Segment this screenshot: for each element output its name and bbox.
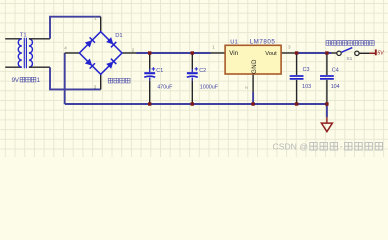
capacitor C2: [187, 53, 219, 104]
junction C4 top: [325, 51, 328, 54]
diode on bottom-left edge: [85, 58, 95, 68]
U1 pin 3 wire: [281, 52, 296, 54]
S1 lever: [341, 48, 352, 53]
C4 plates: [320, 76, 334, 79]
svg-text:3: 3: [94, 85, 97, 90]
C3 pin top: [296, 53, 298, 75]
svg-text:S1: S1: [346, 56, 352, 62]
wire node4 down: [64, 53, 66, 104]
bridge rectifier D1: [64, 16, 136, 90]
U1 body: [225, 45, 281, 74]
junction C3 top: [295, 51, 298, 54]
transformer T1: [5, 32, 50, 84]
capacitor C4: [320, 53, 340, 104]
ground stem red: [326, 117, 328, 123]
svg-text:D1: D1: [115, 33, 122, 39]
svg-text:LM7805: LM7805: [250, 38, 276, 45]
S1 left contact: [337, 51, 341, 55]
wire top rail U1 to switch: [296, 52, 332, 54]
bridge pin 4: [65, 52, 80, 54]
svg-text:4: 4: [64, 46, 67, 51]
U1 pin 2 wire: [252, 74, 254, 92]
T1 secondary winding: [29, 39, 33, 67]
C2 top plate: [187, 72, 198, 74]
T1 primary pin bottom: [5, 66, 22, 68]
C2 bottom plate: [187, 76, 198, 77]
T1 core: [24, 38, 26, 68]
C2 plus sign: [195, 67, 199, 71]
svg-text:T1: T1: [20, 32, 27, 38]
regulator U1 LM7805: [211, 38, 296, 104]
bridge diamond edges: [79, 32, 122, 75]
watermark CSDN: [273, 141, 383, 151]
svg-text:Vout: Vout: [265, 51, 277, 57]
T1 primary winding: [18, 39, 22, 67]
C3 plates: [290, 76, 304, 79]
svg-text:Vin: Vin: [229, 50, 238, 57]
svg-text:C2: C2: [199, 68, 206, 74]
T1 secondary pin bottom: [29, 66, 50, 68]
junction dots: [148, 51, 329, 105]
ground stem blue: [326, 104, 328, 117]
junction C1 top: [148, 51, 151, 54]
junction U1 pin2: [251, 102, 254, 105]
capacitor C1: [144, 53, 173, 104]
svg-text:1: 1: [212, 45, 215, 50]
C1 plus sign: [152, 67, 156, 71]
C2 pin top: [191, 53, 193, 69]
svg-text:-: -: [340, 141, 343, 151]
U1 pin 2 wire blue part: [252, 92, 254, 104]
label 整流全桥: [108, 78, 130, 83]
junction C1 bottom: [148, 102, 151, 105]
C4 pin top: [326, 53, 328, 75]
svg-text:C1: C1: [156, 68, 163, 74]
S1 pin left: [332, 52, 337, 54]
T1 primary pin top: [5, 38, 22, 40]
annotation 控制板的电源总开关: [326, 41, 374, 46]
C1 top plate: [144, 72, 155, 74]
bridge pin 1: [100, 17, 102, 32]
svg-text:1000uF: 1000uF: [200, 85, 219, 91]
C1 pin bottom: [149, 78, 151, 81]
T1 secondary pin top: [29, 38, 50, 40]
ground: [321, 104, 332, 132]
C4 pin bottom: [326, 80, 328, 104]
svg-text:3: 3: [288, 45, 291, 50]
switch S1: [326, 41, 374, 62]
junction C4 bottom: [325, 102, 328, 105]
C1 pin top: [149, 53, 151, 69]
label 9V变压器1: [12, 77, 41, 84]
svg-text:470uF: 470uF: [157, 85, 173, 91]
junction C2 top: [191, 51, 194, 54]
svg-text:C4: C4: [332, 67, 339, 73]
wire secondary-bottom down and right: [50, 67, 101, 89]
svg-text:GND: GND: [252, 59, 258, 74]
svg-text:9V: 9V: [12, 78, 19, 84]
svg-text:103: 103: [302, 84, 311, 90]
wire top rail bridge to U1: [137, 52, 211, 54]
junction C2 bottom: [191, 102, 194, 105]
svg-text:1: 1: [94, 16, 97, 21]
capacitor C3: [290, 53, 311, 104]
bridge pin 3: [100, 74, 102, 89]
S1 pin right: [359, 52, 369, 54]
diode on bottom-right edge: [106, 59, 116, 69]
bridge pin 2: [122, 52, 137, 54]
S1 right contact: [355, 51, 359, 55]
diode on top-right edge: [106, 37, 116, 47]
ground triangle: [321, 123, 332, 132]
wire bottom rail: [65, 103, 327, 105]
port bar: [375, 49, 377, 55]
svg-text:CSDN @: CSDN @: [273, 141, 308, 151]
svg-text:2: 2: [132, 48, 135, 53]
diode on top-left edge: [85, 37, 95, 47]
svg-text:104: 104: [331, 84, 340, 90]
wire secondary-top to bridge pin1: [50, 17, 101, 39]
C3 pin bottom: [296, 80, 298, 104]
svg-text:U1: U1: [230, 39, 237, 45]
junction C3 bottom: [295, 102, 298, 105]
svg-text:C3: C3: [303, 67, 310, 73]
port wire: [370, 52, 376, 54]
svg-text:2: 2: [244, 86, 249, 89]
power port 5V: [370, 49, 386, 56]
C2 pin bottom: [191, 78, 193, 81]
C1 bottom plate: [144, 76, 155, 77]
U1 pin 1 wire: [211, 52, 226, 54]
